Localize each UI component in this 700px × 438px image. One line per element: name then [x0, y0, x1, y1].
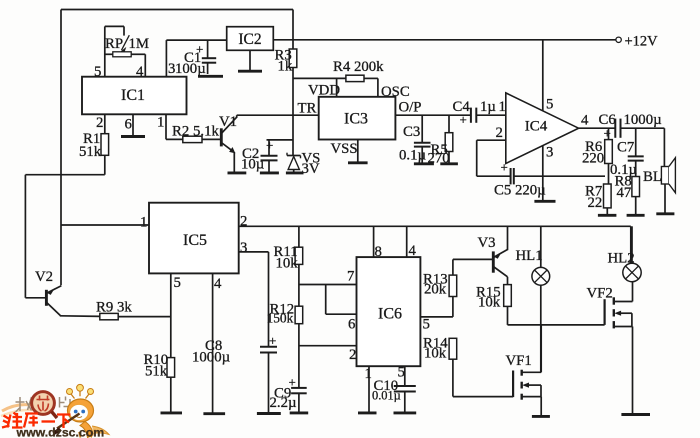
wire: IC1 pin1 to R2 — [166, 114, 183, 139]
capacitor C6 1000u — [599, 112, 665, 141]
svg-text:2: 2 — [496, 125, 503, 141]
svg-text:www.dzsc.com: www.dzsc.com — [16, 426, 105, 438]
IC IC1 — [82, 77, 187, 115]
capacitor C7 0.1u — [610, 128, 644, 178]
svg-text:+: + — [460, 112, 467, 127]
svg-text:1: 1 — [140, 215, 147, 231]
ground: C10 — [394, 411, 417, 414]
svg-text:6: 6 — [125, 117, 132, 133]
svg-text:4: 4 — [136, 64, 144, 80]
wire: top border net (V2 emitter / IC5 pin1 supply loop) — [61, 10, 293, 286]
svg-text:4: 4 — [409, 243, 417, 259]
ground: R8 — [627, 214, 645, 217]
svg-text:V1: V1 — [219, 114, 237, 130]
svg-text:2: 2 — [349, 347, 356, 363]
resistor R14 10k — [423, 336, 513, 397]
svg-text:OSC: OSC — [381, 84, 410, 100]
mosfet VF2 — [587, 282, 633, 415]
wire: IC6 pin4 to rail — [407, 226, 417, 259]
ground: C8 — [257, 412, 281, 415]
svg-text:0.01µ: 0.01µ — [372, 389, 401, 403]
svg-text:5: 5 — [546, 97, 553, 113]
wire: V1 collector to IC3 TR pin — [237, 114, 319, 116]
pin numbers IC5 — [140, 214, 247, 293]
ground: VF1 — [532, 415, 550, 418]
svg-text:10k: 10k — [424, 346, 447, 362]
svg-text:6: 6 — [348, 317, 355, 333]
ground: IC5 pin4 — [203, 412, 225, 415]
resistor R8 47 — [615, 174, 640, 216]
svg-text:1000µ: 1000µ — [192, 350, 231, 366]
svg-text:5: 5 — [174, 275, 181, 291]
wire: IC6 pin7 from R11/R12 node — [299, 269, 357, 285]
svg-text:5: 5 — [423, 317, 430, 333]
capacitor C8 1000u — [192, 333, 277, 414]
pin numbers IC1 — [94, 64, 164, 133]
svg-text:RP: RP — [105, 36, 123, 52]
wire: R13 top to V3 base — [453, 258, 493, 260]
svg-text:5: 5 — [94, 64, 101, 80]
svg-text:10µ: 10µ — [241, 157, 265, 173]
ground: R7 — [598, 214, 617, 217]
svg-text:3: 3 — [240, 240, 247, 256]
svg-text:BL: BL — [643, 169, 662, 185]
potentiometer RP 1M — [105, 26, 149, 76]
svg-text:IC1: IC1 — [121, 87, 145, 104]
svg-text:22: 22 — [588, 195, 603, 211]
svg-text:+: + — [604, 126, 611, 141]
ground: IC1 pin 6 — [121, 114, 145, 136]
wire: IC4 pin3 to ground — [543, 145, 554, 202]
resistor R9 3k — [96, 300, 171, 320]
capacitor C4 1u — [453, 99, 506, 127]
wire: IC5 pin3 to C8 — [239, 252, 269, 347]
svg-text:10k: 10k — [276, 256, 299, 272]
svg-text:1: 1 — [157, 115, 164, 131]
svg-text:V2: V2 — [35, 269, 53, 285]
wire: R3/zener vertical net at x=293 — [292, 10, 294, 156]
svg-text:4: 4 — [581, 113, 589, 129]
lamp HL1 — [516, 226, 550, 372]
svg-text:5: 5 — [398, 365, 405, 381]
IC IC5 — [149, 203, 239, 274]
wire: C2/zener top node — [267, 139, 294, 141]
svg-text:8: 8 — [375, 244, 382, 260]
wire: IC2 input from C1 node — [166, 39, 226, 41]
svg-text:TR: TR — [298, 101, 317, 117]
svg-text:R4 200k: R4 200k — [333, 59, 384, 75]
svg-text:V3: V3 — [478, 235, 496, 251]
wire: IC6 pin2 from R12/C9 node — [299, 346, 357, 363]
pin labels IC3 — [298, 83, 422, 158]
transistor V1 — [219, 114, 237, 173]
ground: R5 — [440, 162, 458, 165]
svg-text:51k: 51k — [79, 144, 102, 160]
lamp HL2 — [608, 226, 642, 281]
capacitor C3 0.1u — [399, 115, 431, 164]
svg-text:C3: C3 — [403, 124, 420, 140]
svg-text:51k: 51k — [145, 364, 168, 380]
ground: C2 — [260, 171, 279, 174]
svg-text:20k: 20k — [424, 282, 447, 298]
svg-text:3: 3 — [546, 145, 553, 161]
resistor R5 270 — [428, 115, 453, 166]
svg-text:0.1µ: 0.1µ — [399, 148, 426, 164]
op-amp IC4 — [506, 93, 579, 164]
resistor R1 51k — [79, 114, 109, 174]
capacitor C1 100u — [175, 40, 223, 77]
svg-text:VF2: VF2 — [587, 286, 613, 302]
wire: IC5 pin5 column — [170, 273, 172, 357]
resistor R12 150k — [267, 302, 303, 388]
wire: R1 bottom to V2 base — [25, 175, 104, 298]
wire: IC3 O/P output — [395, 114, 471, 116]
watermark: dzsc.com logo — [1, 384, 109, 438]
svg-text:VF1: VF1 — [506, 353, 532, 369]
svg-text:2.2µ: 2.2µ — [270, 395, 297, 411]
mosfet VF1 — [506, 325, 542, 416]
wire: IC5 pin4 to ground — [212, 273, 214, 413]
wire: IC4 output pin4 — [579, 113, 616, 129]
wire: IC6 pin8 to rail — [374, 226, 382, 260]
ground: zener VS — [286, 171, 304, 174]
svg-text:4: 4 — [214, 276, 222, 292]
wire: IC6 pin1 to ground — [365, 366, 372, 413]
svg-text:1: 1 — [365, 366, 372, 382]
svg-text:1µ: 1µ — [480, 99, 496, 115]
zener diode VS 3V — [287, 151, 320, 178]
wire: +12V rail from IC2 output to terminal — [273, 39, 618, 41]
wire: IC5 pin2 supply rail of bottom section — [239, 226, 631, 263]
svg-text:1: 1 — [499, 99, 506, 115]
svg-text:+: + — [266, 138, 273, 153]
svg-text:47: 47 — [617, 185, 632, 201]
resistor R6 220 — [582, 128, 612, 184]
svg-text:+: + — [501, 160, 508, 175]
wire: IC1 pin3 riser — [166, 40, 175, 77]
resistor R11 10k — [274, 226, 303, 306]
ground: R10 — [161, 411, 183, 414]
resistor R7 22 — [585, 184, 611, 216]
capacitor C2 10u — [241, 138, 278, 173]
svg-text:IC3: IC3 — [344, 111, 368, 128]
svg-text:+12V: +12V — [625, 33, 659, 49]
svg-text:IC6: IC6 — [378, 306, 402, 323]
ground: IC6 pin1 — [358, 411, 377, 414]
svg-text:VSS: VSS — [331, 141, 358, 157]
ground: IC3 VSS — [348, 140, 368, 163]
svg-text:IC2: IC2 — [238, 31, 261, 48]
ground: VF2 — [621, 413, 650, 416]
ground: IC2 — [238, 50, 262, 71]
resistor R10 51k — [144, 352, 175, 413]
wire: IC6 pin6 link — [326, 285, 357, 333]
svg-text:C5 220µ: C5 220µ — [494, 183, 546, 199]
wire: IC5 pin1 to left border — [61, 224, 149, 226]
svg-text:2: 2 — [96, 115, 103, 131]
wire: IC6 pin5 output (right) — [420, 317, 453, 333]
resistor R15 10k — [476, 285, 511, 325]
svg-text:R2 5.1k: R2 5.1k — [172, 124, 219, 140]
svg-text:IC5: IC5 — [183, 232, 207, 249]
svg-text:100µ: 100µ — [175, 61, 206, 77]
svg-text:O/P: O/P — [399, 100, 422, 116]
svg-text:7: 7 — [347, 269, 354, 285]
svg-text:VDD: VDD — [308, 83, 340, 99]
svg-text:+: + — [196, 42, 203, 57]
transistor V3 — [478, 226, 508, 284]
capacitor C9 2.2u — [270, 375, 307, 413]
capacitor C5 220u — [494, 160, 605, 199]
svg-text:10k: 10k — [478, 295, 501, 311]
ground: V1 emitter — [228, 171, 247, 174]
svg-text:C7: C7 — [617, 140, 634, 156]
svg-text:220: 220 — [582, 151, 604, 167]
wire: V2 collector to R9 — [60, 315, 100, 318]
svg-text:1000µ: 1000µ — [624, 112, 663, 128]
resistor R4 200k — [333, 59, 384, 82]
ground: IC4 pin3 — [534, 200, 555, 203]
IC IC2 — [227, 27, 274, 51]
node: +12V terminal — [616, 33, 658, 49]
ground: C3 — [414, 162, 434, 165]
svg-text:3V: 3V — [302, 161, 320, 177]
ground: C9 — [290, 411, 309, 414]
svg-text:150k: 150k — [267, 311, 294, 326]
svg-text:R9 3k: R9 3k — [96, 300, 132, 316]
capacitor C10 0.01u on IC6 pin5 — [372, 365, 416, 413]
IC IC3 — [319, 97, 396, 140]
resistor R13 20k — [423, 259, 457, 317]
resistor R2 5.1k — [172, 124, 220, 143]
wire: VDD node wire to R4 — [293, 78, 378, 96]
svg-text:1k: 1k — [278, 59, 293, 75]
wire: IC4 pin2 feedback to C5 — [477, 125, 511, 176]
wire: R15 / HL1 / VF2 gate wire — [508, 324, 605, 326]
svg-text:+: + — [269, 333, 276, 348]
wire: IC4 pin5 from +12V rail — [543, 40, 554, 113]
speaker BL — [643, 128, 675, 214]
svg-text:IC4: IC4 — [525, 119, 548, 135]
IC IC6 — [357, 257, 421, 366]
svg-text:1M: 1M — [129, 36, 150, 52]
svg-text:HL1: HL1 — [516, 248, 543, 264]
resistor R3 — [275, 48, 297, 75]
ground: BL — [656, 212, 674, 215]
transistor V2 — [35, 269, 61, 316]
